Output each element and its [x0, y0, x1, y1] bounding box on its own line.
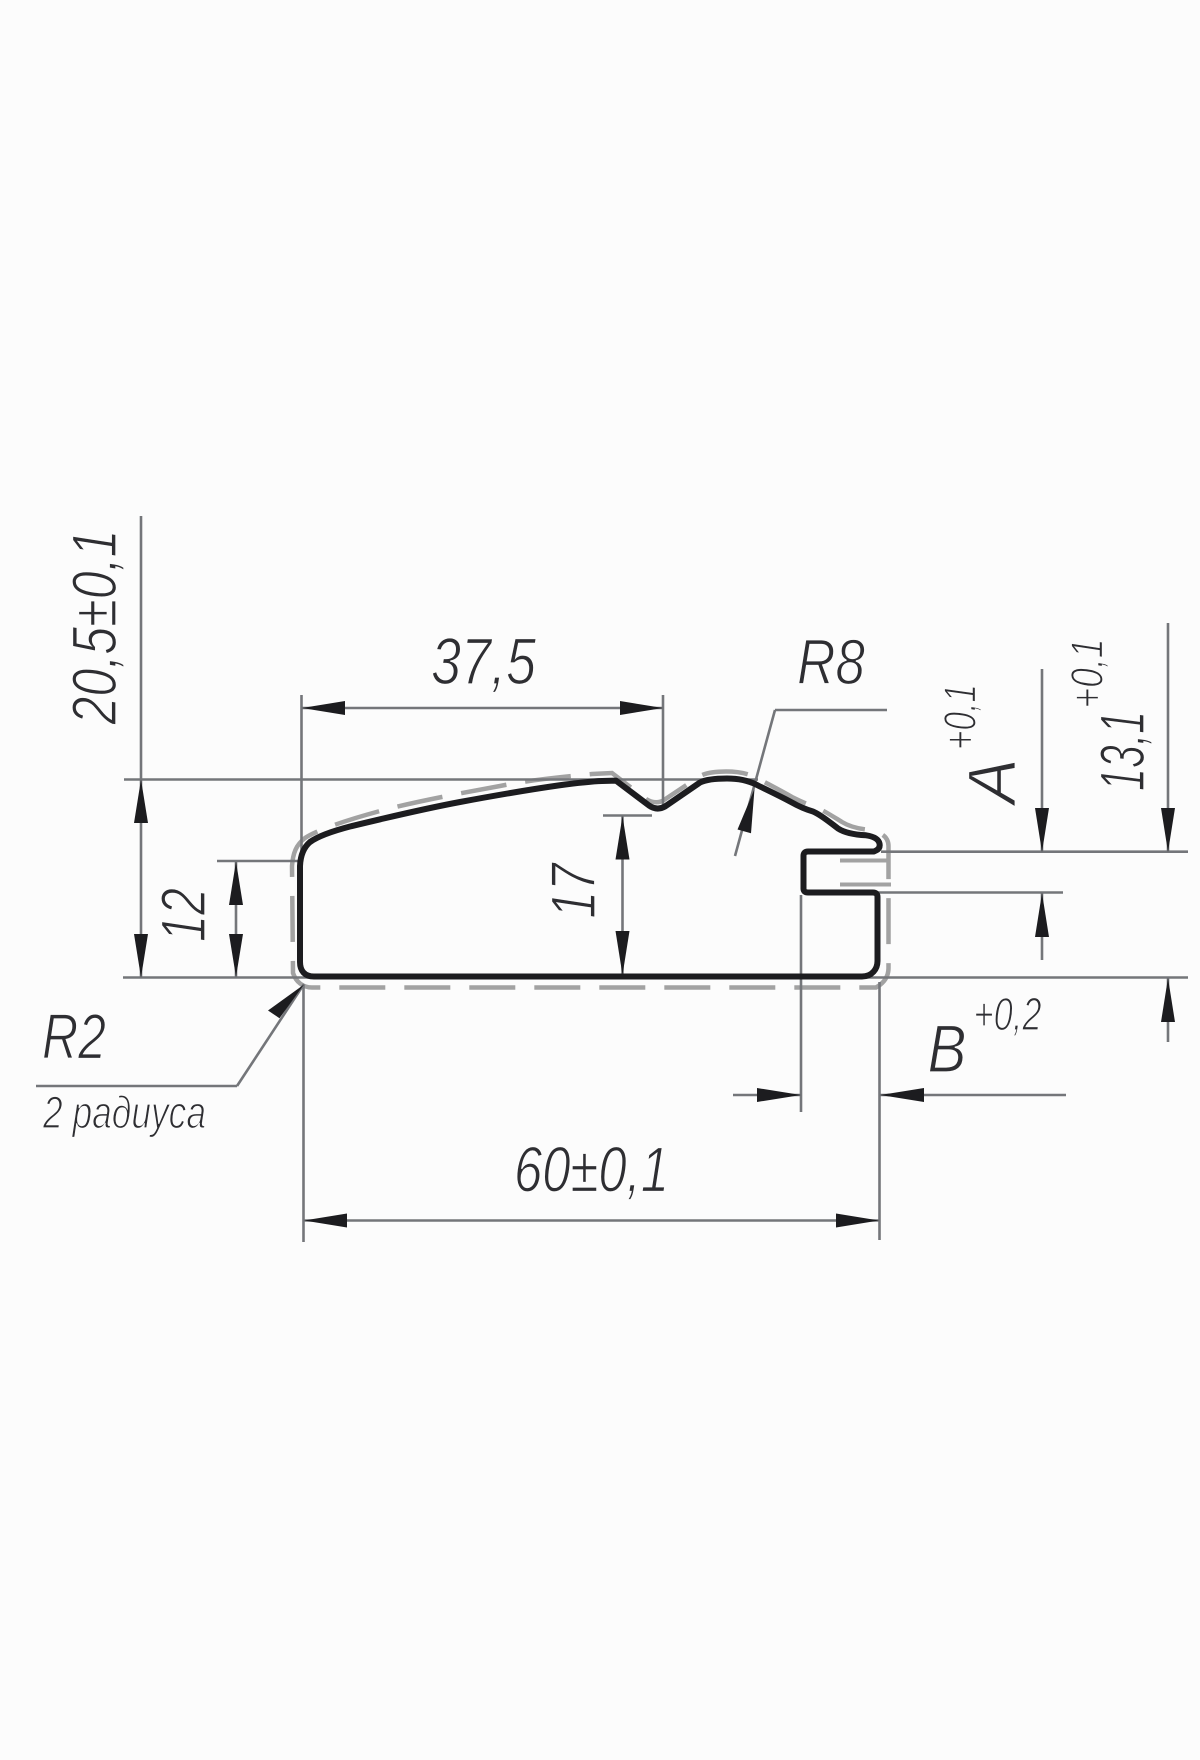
offset line inside groove top wall — [840, 859, 888, 863]
svg-text:A: A — [954, 758, 1030, 807]
extension line: notch apex plane x=663 — [662, 695, 665, 806]
R8 leader shelf — [775, 709, 887, 712]
label 12 — [149, 888, 219, 942]
arrowhead 37,5 left — [302, 701, 345, 715]
svg-text:+0,1: +0,1 — [1062, 639, 1113, 709]
offset line inside groove bottom wall — [840, 883, 891, 887]
dimension line 13,1 lower segment — [1167, 978, 1170, 1042]
arrowhead 13,1 bottom (up, outside) — [1161, 978, 1175, 1022]
dimension line B left segment (y=1095) — [733, 1094, 801, 1097]
label A tolerance +0,1 — [935, 684, 986, 750]
svg-text:+0,1: +0,1 — [935, 684, 986, 750]
arrowhead 37,5 right — [620, 701, 663, 715]
arrowhead 60 left — [304, 1214, 347, 1228]
label 13,1 tolerance +0,1 — [1062, 639, 1113, 709]
svg-text:60±0,1: 60±0,1 — [514, 1134, 669, 1206]
R8 leader arrowhead — [738, 789, 755, 833]
svg-text:R8: R8 — [797, 626, 865, 698]
arrowhead A top (down, outside) — [1035, 808, 1049, 852]
arrowhead 12 top (up) — [229, 862, 243, 906]
dashed facing/offset contour around profile — [292, 772, 889, 988]
extension line: notch bottom tick y=814 (dim 17) — [603, 814, 652, 817]
svg-text:B: B — [928, 1011, 967, 1087]
arrowhead 17 bottom (down) — [616, 931, 630, 975]
profile outline of moulding cross-section — [300, 779, 880, 977]
arrowhead 13,1 top (down, outside) — [1161, 808, 1175, 852]
label 13,1 — [1088, 711, 1158, 791]
R2 leader shelf — [36, 1085, 237, 1088]
svg-text:17: 17 — [539, 862, 609, 919]
R8 leader line — [735, 710, 775, 856]
extension line: right edge plane x=879.5 — [878, 982, 881, 1240]
extension line: left edge top tick y=861 (dim 12) — [217, 860, 301, 863]
R2 leader arrowhead — [268, 985, 304, 1019]
extension line: top tangent plane y=779.5 — [124, 778, 758, 781]
label A — [954, 758, 1030, 807]
extension line: groove top plane y=851.7 — [881, 850, 1188, 853]
dimension line 20,5±0,1 (x=141) — [140, 516, 143, 977]
dimension line A upper segment (x=1042) — [1041, 669, 1044, 852]
label 17 — [539, 862, 609, 919]
label 20,5±0,1 — [60, 530, 130, 726]
arrowhead 20,5 bottom (down) — [134, 934, 148, 978]
dimension line 13,1 upper segment (x=1168) — [1167, 623, 1170, 852]
dimension line 17 (x=622.5) — [621, 816, 624, 976]
extension line: bottom plane y=977.5 — [123, 976, 1188, 979]
extension line: groove depth plane x=801 — [800, 895, 803, 1112]
arrowhead 20,5 top (up) — [134, 780, 148, 824]
arrowhead 60 right — [836, 1214, 879, 1228]
dimension line 60±0,1 (y=1220.5) — [304, 1219, 880, 1222]
extension line: bottom-left corner plane x=303.5 — [302, 985, 305, 1242]
extension line: groove bottom plane y=892.5 — [841, 891, 1063, 894]
arrowhead 17 top (up) — [616, 816, 630, 860]
R2 leader line — [237, 984, 304, 1086]
svg-text:20,5±0,1: 20,5±0,1 — [60, 530, 130, 726]
svg-text:R2: R2 — [42, 1001, 106, 1073]
svg-text:12: 12 — [149, 888, 219, 942]
arrowhead A bottom (up, outside) — [1035, 893, 1049, 937]
extension line: left edge plane x=301.5 — [300, 695, 303, 866]
dimension line 12 (x=236) — [235, 861, 238, 977]
svg-text:+0,2: +0,2 — [974, 988, 1042, 1040]
svg-text:2 радиуса: 2 радиуса — [42, 1087, 206, 1138]
dimension line 37,5 (y=708) — [302, 707, 664, 710]
svg-text:13,1: 13,1 — [1088, 711, 1158, 791]
dimension line B right segment — [880, 1094, 1066, 1097]
arrowhead 12 bottom (down) — [229, 934, 243, 977]
arrowhead B right (left-pointing, outside) — [880, 1088, 924, 1102]
dimension line A lower segment — [1041, 893, 1044, 960]
arrowhead B left (right-pointing, outside) — [757, 1088, 801, 1102]
svg-text:37,5: 37,5 — [431, 624, 536, 698]
